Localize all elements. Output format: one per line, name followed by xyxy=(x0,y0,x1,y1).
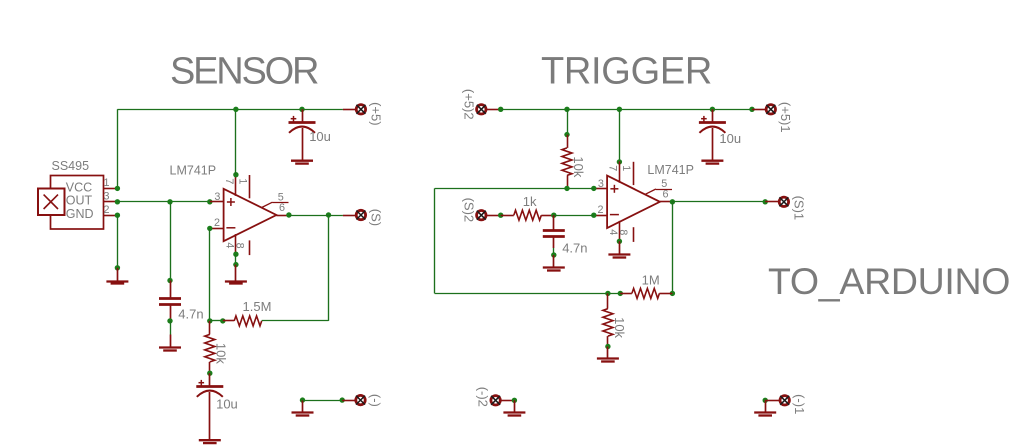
svg-text:LM741P: LM741P xyxy=(170,164,217,178)
svg-text:7: 7 xyxy=(223,178,235,184)
svg-text:1.5M: 1.5M xyxy=(243,299,272,314)
svg-text:2: 2 xyxy=(214,217,220,229)
svg-text:(+5)1: (+5)1 xyxy=(778,102,793,133)
svg-text:(+5)2: (+5)2 xyxy=(461,89,476,120)
svg-text:8: 8 xyxy=(233,243,245,249)
svg-text:1: 1 xyxy=(620,165,632,171)
svg-text:1k: 1k xyxy=(523,194,537,209)
svg-text:(-)2: (-)2 xyxy=(476,387,491,407)
svg-text:3: 3 xyxy=(598,178,604,190)
svg-text:(S): (S) xyxy=(368,209,383,226)
svg-text:3: 3 xyxy=(214,191,220,203)
svg-text:SS495: SS495 xyxy=(52,159,90,173)
svg-text:10u: 10u xyxy=(719,131,741,146)
svg-text:10k: 10k xyxy=(612,317,627,338)
svg-text:GND: GND xyxy=(66,207,94,221)
svg-text:7: 7 xyxy=(607,165,619,171)
svg-text:4.7n: 4.7n xyxy=(178,307,203,322)
svg-text:3: 3 xyxy=(103,191,109,203)
svg-text:SENSOR: SENSOR xyxy=(170,51,318,93)
svg-text:6: 6 xyxy=(279,202,285,214)
svg-text:6: 6 xyxy=(663,189,669,201)
svg-text:10k: 10k xyxy=(214,343,229,364)
svg-text:(-): (-) xyxy=(368,394,383,407)
svg-text:LM741P: LM741P xyxy=(647,163,694,177)
svg-text:(S)2: (S)2 xyxy=(461,198,476,223)
svg-text:1M: 1M xyxy=(642,273,660,288)
svg-text:(+5): (+5) xyxy=(368,102,383,125)
svg-text:4.7n: 4.7n xyxy=(562,240,587,255)
svg-text:TO_ARDUINO: TO_ARDUINO xyxy=(768,260,1010,302)
svg-text:2: 2 xyxy=(103,204,109,216)
svg-text:1: 1 xyxy=(103,177,109,189)
svg-text:8: 8 xyxy=(617,229,629,235)
svg-text:TRIGGER: TRIGGER xyxy=(541,51,712,93)
svg-text:(S)1: (S)1 xyxy=(791,196,806,221)
svg-text:10k: 10k xyxy=(571,156,586,177)
svg-text:(-)1: (-)1 xyxy=(792,394,807,414)
svg-text:1: 1 xyxy=(237,178,249,184)
svg-text:10u: 10u xyxy=(309,129,331,144)
svg-text:OUT: OUT xyxy=(66,194,93,208)
svg-text:10u: 10u xyxy=(216,397,238,412)
svg-text:2: 2 xyxy=(598,204,604,216)
svg-text:VCC: VCC xyxy=(66,180,92,194)
